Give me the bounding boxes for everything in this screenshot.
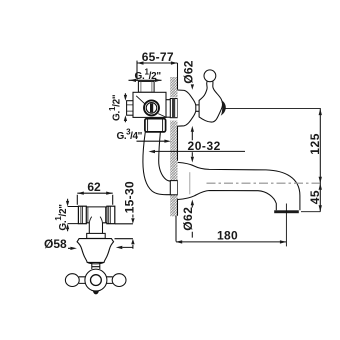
- valve front port slot: [150, 103, 153, 112]
- handle stem: [196, 105, 199, 111]
- handle escutcheon dome: [178, 90, 196, 126]
- valve front port outer ring: [144, 100, 159, 115]
- cross handle bottom tip: [93, 291, 98, 294]
- spout escutcheon and body: [178, 162, 300, 210]
- spout fill mask: [178, 162, 209, 199]
- svg-text:15-30: 15-30: [122, 181, 136, 213]
- left view: stem sides: [89, 223, 102, 234]
- valve bottom union nut: [145, 119, 166, 132]
- dim G1/2 left port arrows: [124, 93, 126, 122]
- dim Ø62 handle arrows: [191, 85, 193, 140]
- valve wall sleeve: [170, 99, 177, 118]
- wall face lower extension: [175, 216, 177, 242]
- dim Ø58 arrows: [68, 246, 133, 249]
- svg-text:125: 125: [308, 133, 322, 155]
- dim G1/2 (left view) arrows: [67, 199, 69, 232]
- bell bottom arc: [87, 262, 104, 263]
- pipe to spout (right edge): [159, 132, 171, 181]
- pipe to spout (left edge): [143, 132, 170, 195]
- valve right neck to wall: [166, 100, 170, 118]
- valve front port inner circle: [146, 103, 157, 114]
- dim 15-30 line and arrows: [132, 215, 134, 249]
- dim 20-32 leader underline: [155, 150, 245, 152]
- dim 62 extensions: [77, 195, 112, 205]
- label G.1/2 top leader line: [129, 79, 162, 81]
- left view: stem collar: [87, 233, 106, 238]
- cross handle hub: [85, 269, 107, 291]
- svg-text:20-32: 20-32: [187, 139, 220, 153]
- svg-text:62: 62: [87, 180, 101, 194]
- dim Ø62 spout arrow: [191, 205, 193, 238]
- left view: cross tube: [86, 207, 107, 223]
- dim 65-77 left extension: [136, 61, 138, 81]
- valve body diagonal edges: [136, 96, 166, 117]
- dim G1/2 (left view) extensions: [68, 207, 79, 224]
- left view: stem fillets: [89, 217, 102, 223]
- svg-text:65-77: 65-77: [142, 50, 174, 64]
- svg-text:G.3/4": G.3/4": [117, 127, 143, 142]
- wall hatch middle: [170, 121, 177, 181]
- label G.3/4 leader: [137, 140, 165, 142]
- left view: bell escutcheon: [77, 239, 114, 263]
- cross handle right knob: [112, 274, 126, 287]
- svg-text:Ø62: Ø62: [181, 60, 195, 84]
- svg-text:180: 180: [217, 229, 238, 243]
- pipe wall connector: [170, 181, 177, 195]
- valve body: [133, 92, 166, 117]
- lever ball: [204, 70, 216, 82]
- svg-text:G.1/2": G.1/2": [54, 204, 69, 231]
- valve top inlet tube: [138, 81, 154, 92]
- dim 15-30 extensions: [115, 224, 133, 239]
- left view: left nut: [78, 206, 86, 224]
- dim 180 line: [176, 241, 286, 243]
- svg-text:45: 45: [308, 190, 322, 204]
- spout centerline (dash-dot): [207, 182, 320, 184]
- dim 65-77 line: [137, 62, 177, 64]
- svg-text:Ø58: Ø58: [44, 237, 67, 251]
- dim 20-32 bottom arrow: [191, 152, 193, 156]
- cross handle necks: [79, 277, 113, 284]
- outlet bottom extension line: [301, 211, 320, 213]
- left view: handle stem: [92, 263, 100, 269]
- wall hatch lower: [170, 195, 177, 216]
- lever end crescent: [221, 100, 226, 116]
- spout escutcheon face line: [189, 172, 191, 194]
- left view: right nut: [107, 206, 115, 224]
- wall front face line: [177, 63, 179, 216]
- lever handle body: [199, 81, 222, 122]
- cross handle left knob: [65, 274, 79, 287]
- outlet center extension line: [285, 204, 287, 247]
- handle centerline: [225, 108, 321, 110]
- dim 62 line: [77, 192, 112, 194]
- dim 125/45 vertical line: [319, 109, 321, 212]
- valve left port: [127, 101, 133, 116]
- spout outlet flange: [274, 210, 299, 213]
- svg-text:Ø62: Ø62: [181, 207, 195, 231]
- left view: tube washers: [88, 207, 106, 223]
- svg-text:G.1/2": G.1/2": [108, 94, 123, 121]
- wall hatch upper: [170, 77, 177, 97]
